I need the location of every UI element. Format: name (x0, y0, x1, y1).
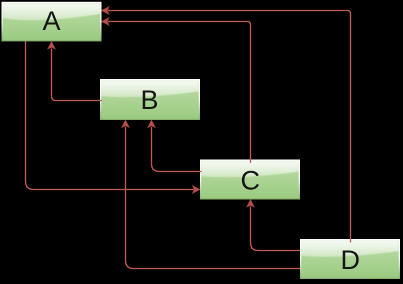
svg-text:B: B (140, 85, 158, 115)
svg-text:D: D (341, 245, 361, 275)
svg-text:C: C (241, 166, 261, 196)
svg-text:A: A (42, 6, 60, 36)
